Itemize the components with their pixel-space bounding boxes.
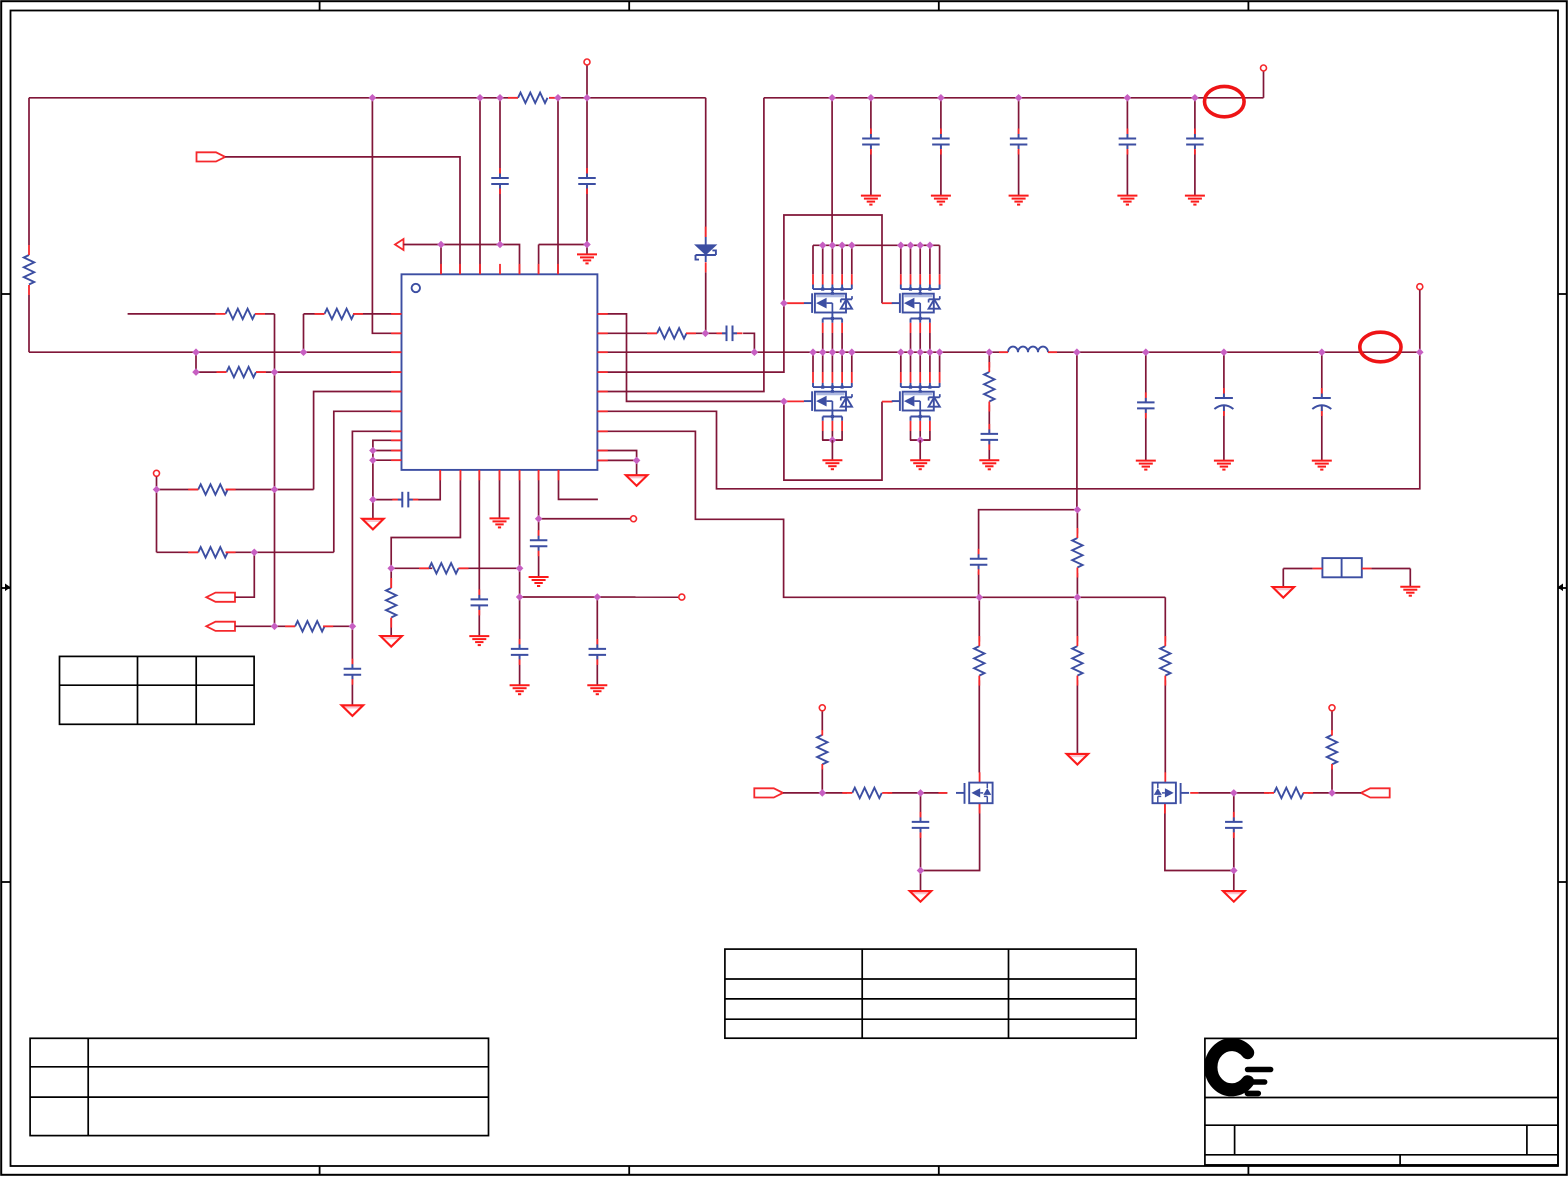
wire rail A left drop [28,98,30,352]
ground C16 [510,685,530,694]
ground W1 right [1400,587,1420,596]
transistor Q4 [892,352,940,460]
capacitor C5 [932,129,950,155]
wire VIN rail B [764,71,1264,97]
wire pin460B chain [391,470,460,568]
capacitor C11 [1214,388,1233,416]
resistor R3 [216,309,266,319]
wire C13 net [979,510,1078,598]
transistor Q5 [939,783,993,804]
wire pins450-460R gnd [597,451,636,475]
wire net518 to TP3 [539,518,631,520]
wire gate stub Q1 [785,302,805,304]
wire rail to pin480t [479,98,481,274]
resistor R9 [285,621,333,631]
wire C8 chain [1194,98,1196,196]
resistor R14 [1072,636,1082,686]
wire pin411R VOUT fb [597,352,1419,489]
wire R5 net [196,371,402,373]
resistor R16 [817,730,827,770]
op-amp U1 [402,274,598,470]
ground Q3 [822,460,842,469]
wire net row352 [29,351,402,353]
transistor Q3 [804,352,852,460]
ground tri R20 [380,636,402,647]
resistor R6 [647,328,696,338]
wire C18 branch [596,597,598,685]
pin TP2 [679,594,685,600]
wire left drop156 [156,490,158,553]
wire net-tie left [1283,569,1312,587]
pin TP1 [154,470,160,476]
ground C18 [587,685,607,694]
capacitor C17 [530,530,548,556]
resistor R12 [1072,528,1082,578]
wire VIN rail A [29,97,706,99]
wire FET top bus [813,244,940,246]
wire P6 gate net [1198,792,1361,794]
transistor Q6 [1153,783,1199,804]
wire P4 R9 net [235,625,352,627]
wire pin499B chain [499,470,501,519]
wire C5 chain [940,98,942,196]
resistor R8 [188,547,235,557]
wire rail to C1 [499,98,501,245]
inductor L1 [999,347,1057,353]
wire Q6 drain stub [1164,772,1166,782]
wire C2 chain [586,65,588,254]
wire SW bus [597,351,1419,353]
wire rail to pin558t [557,98,559,274]
ground C17 [529,577,549,586]
wire row244 gnd spur [539,245,587,275]
wire rail to pin333 [372,98,401,333]
resistor R1 [24,245,34,295]
wire R13 chain [978,597,980,772]
wire P1 to pin460t [225,157,460,274]
capacitor C3 [717,326,743,342]
pin TP3 [631,516,637,522]
capacitor C6 [1010,129,1028,155]
resistor R2 [508,93,559,103]
wire R7 net [157,477,314,490]
wire P5 gate net [783,792,947,794]
transistor Q2 [892,245,940,352]
ground C5 [931,196,951,205]
wire R12 chain [1076,510,1078,598]
U1 pin stubs [391,264,608,480]
wire C6 chain [1018,98,1020,196]
wire R15 chain [1164,597,1166,772]
ground tri Q5 [910,891,932,902]
wire pin431L chain [352,431,401,705]
wire Q5 source [921,803,980,891]
ground C7 [1117,196,1137,205]
ground tri W1 [1273,587,1295,598]
resistor R17 [842,788,892,798]
wire C11 chain [1223,352,1225,460]
ground tri C19 [342,705,364,716]
wire C12 chain [1321,352,1323,460]
capacitor C21 [1225,812,1243,838]
wire R16 chain [821,711,823,793]
port P1 EN [197,152,226,161]
wire R14 chain [1076,597,1078,754]
wire j441 drop [440,245,442,275]
wire net-tie right [1371,569,1410,587]
wire R8 net [157,411,402,552]
ellipse marker VIN [1205,86,1245,116]
capacitor C10 [1137,392,1155,418]
capacitor C1 [491,168,509,194]
transistor Q1 [804,245,852,352]
wire pins441-460L chain [373,440,402,499]
wire pin391L chain [314,392,402,490]
resistor R15 [1160,636,1170,686]
wire R6 C3 net [597,333,754,352]
resistor R13 [974,636,984,686]
port P2 arrow [395,239,404,250]
capacitor C12 [1312,388,1331,416]
pin pullup R [1329,705,1335,711]
capacitor C19 [344,659,362,685]
wire R10 net [391,567,519,569]
ground C11 [1214,461,1234,470]
wire C20 chain [920,793,922,871]
wire rail to FET bus [831,98,833,246]
ellipse marker VOUT [1360,332,1401,362]
wire gate stub Q2 [882,302,893,304]
resistor R4 [315,309,364,319]
capacitor C13 [970,549,988,575]
diode D1 [695,227,716,273]
resistor R7 [188,484,235,494]
capacitor C9 [981,424,999,450]
capacitor C8 [1186,129,1204,155]
wire C4 chain [870,98,872,196]
capacitor C7 [1119,129,1137,155]
wire j196 drop [195,352,197,372]
wire pin440B chain [373,470,440,519]
resistor R11 [984,362,994,412]
resistor R10 [419,563,469,573]
wire D1 chain [705,98,707,333]
ground Q4 [910,460,930,469]
port P6 [1361,788,1390,797]
port P5 [754,788,783,797]
wire gate stub Q4 [882,401,893,403]
capacitor C15 [471,589,489,615]
capacitor C4 [862,129,880,155]
wire Q6 source [1165,803,1234,891]
wire net597 [520,596,679,598]
wire P2 row244 [404,245,520,275]
pin pullup L [819,705,825,711]
ground C12 [1312,461,1332,470]
ground C4 [861,196,881,205]
capacitor C2 [578,168,596,194]
wire pin558B stub [559,470,598,500]
ground C15 [469,636,489,645]
wire gate net top [597,215,882,372]
ground C6 [1009,196,1029,205]
resistor R20 [386,578,396,628]
wire C21 chain [1233,793,1235,871]
pin VOUT [1417,284,1423,290]
wire R3 net [128,314,275,626]
wire C7 chain [1126,98,1128,196]
capacitor C20 [912,812,930,838]
pin VIN [1261,65,1267,71]
capacitor C14 [392,492,418,508]
wire pin480B chain [478,470,480,636]
ground pin499 [490,518,510,527]
wire R20 drop [390,568,392,636]
resistor R5 [217,367,267,377]
wire VOUT stub [1419,290,1421,352]
ground C9 [979,460,999,469]
port P4 [206,622,235,631]
wire pin539B chain [538,470,540,577]
jumper W1 [1313,558,1372,577]
resistor R19 [1327,730,1337,770]
wire R19 chain [1331,711,1333,793]
wire gate net bottom [597,314,882,480]
wire gate stub Q3 [785,400,805,402]
wire snubber chain [988,352,990,460]
ground C8 [1185,196,1205,205]
ground tri C14 [362,519,384,530]
wire pin431R long [597,431,1165,597]
ground C2 [577,254,597,263]
capacitor C16 [511,639,528,665]
ground tri pin460R [626,475,648,486]
wire Q5 drain stub [979,772,981,782]
ground tri R14 [1067,754,1089,765]
resistor R18 [1264,788,1313,798]
pin AVDD [584,59,590,65]
wire C10 chain [1145,352,1147,460]
ground C10 [1136,461,1156,470]
wire pin519B chain [519,470,521,685]
wire R4 net [304,314,402,352]
ground tri Q6 [1223,891,1245,902]
capacitor C18 [589,639,607,665]
wire VOUT sense drop [1076,352,1078,510]
port P3 [206,593,235,602]
wire pin391R rail [597,98,764,392]
wire P3 chain [235,552,254,597]
